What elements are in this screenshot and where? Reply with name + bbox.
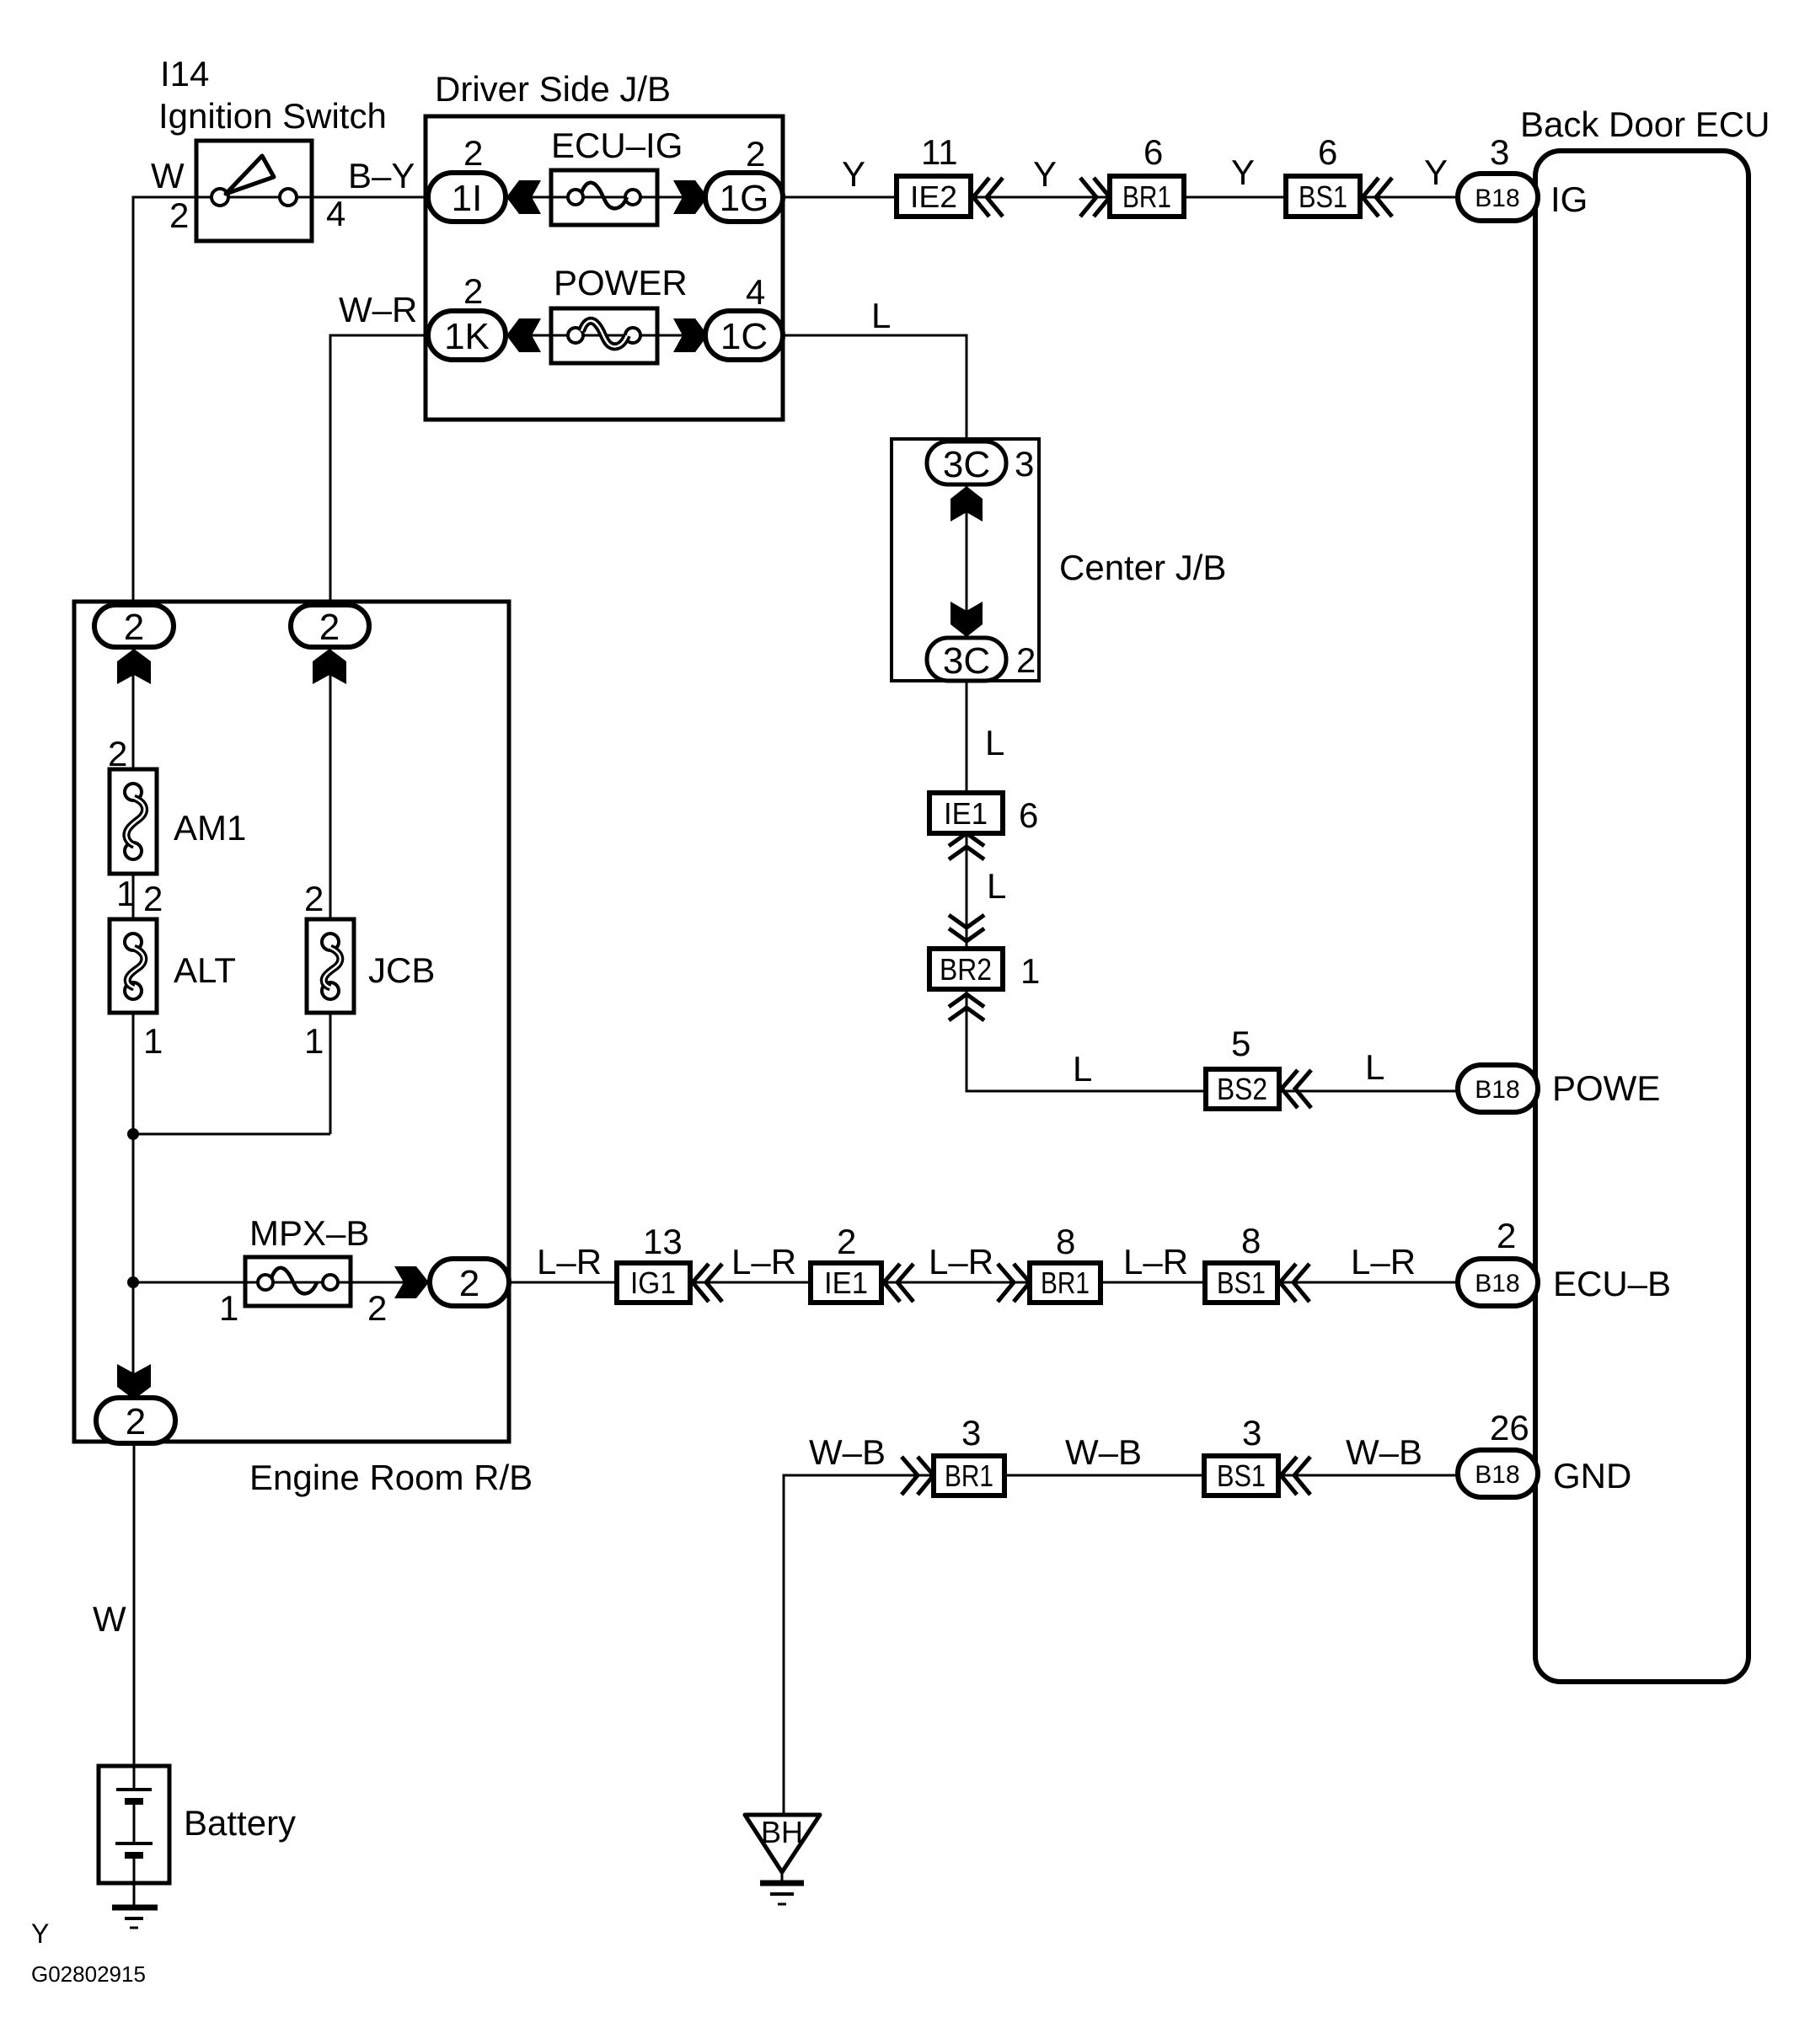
wire L-R: MPX-B junction to fuse to connector 2 — [133, 1282, 431, 1284]
pin name IG — [1550, 179, 1588, 219]
connector BR1 pin 6 (IG row) — [1110, 176, 1184, 217]
Driver Side J/B box — [426, 116, 783, 420]
wire W-R: from Engine Room R/B JCB branch up to 1K — [330, 335, 472, 607]
svg-text:L: L — [871, 296, 891, 335]
label L wire color (3C to IE1) — [985, 723, 1004, 762]
arrow up into oval 2 top-left — [117, 649, 151, 684]
svg-text:Ignition Switch: Ignition Switch — [158, 96, 387, 136]
connector BR1 pin 3 (GND row) — [934, 1456, 1004, 1496]
svg-text:1G: 1G — [720, 178, 769, 219]
svg-text:26: 26 — [1490, 1408, 1529, 1447]
svg-text:IE2: IE2 — [910, 179, 957, 214]
label fuse ALT — [174, 950, 236, 990]
svg-text:W–B: W–B — [1065, 1432, 1142, 1472]
pin 3 above BR1 GND — [961, 1413, 981, 1453]
pin 3 above BS1 GND — [1242, 1413, 1261, 1453]
svg-text:BR1: BR1 — [1122, 179, 1171, 214]
chevrons after BS2 (POWE row) — [1282, 1070, 1311, 1108]
svg-text:2: 2 — [463, 271, 483, 311]
connector oval 2 bottom of Engine Room R/B — [96, 1398, 175, 1443]
svg-text:2: 2 — [459, 1263, 479, 1304]
svg-text:1K: 1K — [444, 316, 490, 357]
svg-text:B18: B18 — [1475, 1076, 1519, 1104]
connector BS1 pin 3 (GND row) — [1204, 1456, 1278, 1496]
battery — [99, 1766, 169, 1883]
svg-text:Y: Y — [1231, 152, 1255, 192]
svg-text:BS1: BS1 — [1217, 1458, 1266, 1493]
svg-text:2: 2 — [169, 195, 189, 235]
chevrons after BS1 (IG row) — [1363, 178, 1392, 217]
svg-text:Y: Y — [1033, 154, 1057, 194]
svg-text:2: 2 — [746, 134, 765, 174]
arrow into 1I from fuse ECU-IG — [506, 180, 541, 214]
svg-text:2: 2 — [463, 133, 483, 173]
pin name ECU-B — [1553, 1264, 1671, 1303]
connector oval 1I pin 2 — [428, 173, 506, 222]
svg-text:6: 6 — [1318, 132, 1337, 172]
svg-text:ECU–B: ECU–B — [1553, 1264, 1671, 1303]
arrow up into 3C pin 3 — [951, 486, 983, 522]
svg-text:BR2: BR2 — [940, 952, 992, 987]
chevrons after IE1 (ECU-B row) — [884, 1264, 913, 1302]
svg-text:BR1: BR1 — [1041, 1265, 1090, 1300]
connector oval 2 MPX-B output — [430, 1259, 509, 1306]
svg-text:6: 6 — [1019, 795, 1038, 835]
wire: battery positive branch down left column of Engine Room R/B — [132, 623, 135, 771]
arrow right into MPX-B output oval 2 — [394, 1266, 429, 1298]
connector oval B18 pin 26 GND — [1458, 1450, 1538, 1497]
pin 2 of MPX-B — [367, 1288, 387, 1328]
svg-text:Y: Y — [1424, 152, 1448, 192]
fuse MPX-B — [245, 1257, 351, 1306]
wire IG row: 1I through ECU-IG fuse to 1G — [472, 196, 742, 199]
label L wire color (BS2 to B18) — [1365, 1047, 1384, 1087]
pin 2 above 1K — [463, 271, 483, 311]
svg-text:3C: 3C — [943, 444, 990, 485]
pin 11 above IE2 — [921, 132, 958, 172]
label Center J/B — [1059, 548, 1226, 587]
svg-text:JCB: JCB — [368, 950, 435, 990]
arrow down into 3C pin 2 — [951, 602, 983, 637]
wire W-B: BH ground up and right to BR1 BS1 to B18 GND — [784, 1475, 1483, 1815]
pin 6 above BS1 — [1318, 132, 1337, 172]
svg-text:8: 8 — [1241, 1221, 1261, 1260]
label W-R wire color — [339, 290, 417, 329]
svg-text:L: L — [987, 866, 1006, 906]
svg-text:BS1: BS1 — [1299, 179, 1347, 214]
svg-text:IE1: IE1 — [824, 1265, 868, 1300]
svg-text:L–R: L–R — [1123, 1242, 1188, 1282]
pin 2 above AM1 — [108, 734, 127, 773]
connector oval 1C pin 4 — [705, 311, 783, 360]
label L-R wire color (BS1 to B18) — [1351, 1242, 1416, 1282]
chevrons below BR2 — [949, 994, 984, 1020]
label L wire color (BR2 to BS2) — [1073, 1049, 1092, 1089]
chevrons after IG1 (ECU-B row) — [693, 1264, 722, 1302]
svg-text:2: 2 — [1016, 640, 1036, 680]
svg-text:Driver Side J/B: Driver Side J/B — [435, 69, 671, 109]
label Y wire color (1G to IE2) — [842, 154, 865, 194]
label Y wire color (BR1 to BS1) — [1231, 152, 1255, 192]
wire: JCB pin 1 down to junction row — [329, 1011, 332, 1134]
label Driver Side J/B — [435, 69, 671, 109]
wire L: Center J/B 3C pin 2 down to IE1 — [966, 679, 968, 795]
pin name POWE — [1552, 1068, 1660, 1108]
label Battery — [184, 1803, 296, 1843]
ground below battery — [112, 1883, 158, 1928]
ground BH triangle — [745, 1815, 820, 1904]
svg-text:5: 5 — [1231, 1024, 1250, 1063]
chevrons after IE2 (IG row) — [973, 178, 1003, 217]
svg-text:13: 13 — [643, 1222, 683, 1261]
ignition switch I14 box — [196, 141, 312, 241]
fuse ALT — [110, 919, 157, 1013]
connector oval 2 top-left of Engine Room R/B — [94, 605, 174, 648]
label L-R wire color (IG1 to IE1) — [731, 1242, 796, 1282]
pin 8 above BR1 — [1056, 1222, 1075, 1261]
label fuse JCB — [368, 950, 435, 990]
svg-text:ALT: ALT — [174, 950, 236, 990]
label fuse ECU-IG — [551, 126, 683, 165]
svg-text:3: 3 — [1242, 1413, 1261, 1453]
svg-text:Battery: Battery — [184, 1803, 296, 1843]
svg-text:Engine Room R/B: Engine Room R/B — [249, 1458, 533, 1497]
label W-B wire color (BR1 to BS1) — [1065, 1432, 1142, 1472]
svg-text:B18: B18 — [1475, 1461, 1519, 1489]
svg-text:BR1: BR1 — [945, 1458, 993, 1493]
pin 4 of ignition switch — [326, 194, 345, 233]
pin 1 below JCB — [304, 1021, 324, 1061]
chevrons after BS1 (ECU-B row) — [1280, 1264, 1309, 1302]
arrow up into oval 2 top-right — [313, 649, 346, 684]
svg-text:W–B: W–B — [809, 1432, 886, 1472]
pin 3 above B18 IG — [1490, 132, 1509, 172]
wire POWER row: 1K through POWER fuse to 1C — [472, 334, 742, 337]
svg-text:BS1: BS1 — [1217, 1265, 1266, 1300]
junction node: ALT-JCB tie point — [127, 1128, 139, 1140]
pin 8 above BS1 — [1241, 1221, 1261, 1260]
wire L: BR2 down then right to BS2 and B18 POWE — [967, 988, 1483, 1091]
svg-text:Back Door ECU: Back Door ECU — [1520, 104, 1770, 144]
pin 2 above ALT — [143, 879, 163, 918]
wire: ALT pin 1 down to junction and MPX-B junction and bottom connector — [132, 1011, 135, 1401]
pin 2 above JCB — [304, 879, 324, 918]
chevrons before BR1 (GND row) — [902, 1457, 934, 1495]
svg-text:3: 3 — [961, 1413, 981, 1453]
Back Door ECU box — [1535, 151, 1748, 1682]
label fuse AM1 — [174, 808, 246, 848]
svg-text:4: 4 — [326, 194, 345, 233]
svg-text:2: 2 — [126, 1401, 146, 1442]
svg-text:IE1: IE1 — [944, 796, 988, 831]
pin 3 of 3C — [1015, 444, 1034, 484]
wire W: ignition switch pin 2 to Engine Room R/B connector — [133, 197, 312, 607]
wire L: 1C to Center J/B 3C pin 3 — [742, 335, 967, 443]
svg-text:1: 1 — [304, 1021, 324, 1061]
svg-text:W–R: W–R — [339, 290, 417, 329]
svg-text:L–R: L–R — [731, 1242, 796, 1282]
label Y wire color (IE2 to BR1) — [1033, 154, 1057, 194]
svg-text:W: W — [93, 1599, 126, 1639]
svg-text:B18: B18 — [1475, 1270, 1519, 1298]
label L wire color (1C to Center J/B) — [871, 296, 891, 335]
svg-text:2: 2 — [108, 734, 127, 773]
svg-text:1C: 1C — [720, 316, 768, 357]
connector BS2 pin 5 — [1206, 1069, 1279, 1109]
connector IG1 pin 13 — [617, 1263, 690, 1303]
svg-text:2: 2 — [1497, 1216, 1516, 1255]
wire: JCB branch vertical — [329, 623, 332, 921]
ignition switch pin contact circles — [212, 189, 297, 206]
wire: junction row connecting ALT branch to JCB branch — [133, 1133, 330, 1136]
label L-R wire color (BR1 to BS1) — [1123, 1242, 1188, 1282]
pin 2 of 3C — [1016, 640, 1036, 680]
connector oval 2 top-right of Engine Room R/B — [291, 605, 369, 648]
connector IE1 pin 2 (ECU-B row) — [811, 1263, 881, 1303]
svg-text:8: 8 — [1056, 1222, 1075, 1261]
label Y wire color (BS1 to B18) — [1424, 152, 1448, 192]
svg-text:1: 1 — [143, 1021, 163, 1061]
connector oval B18 POWE — [1458, 1065, 1538, 1112]
chevrons before BR1 (ECU-B row) — [998, 1264, 1030, 1302]
svg-text:B–Y: B–Y — [348, 156, 415, 195]
Center J/B box — [892, 439, 1039, 681]
label I14 — [160, 54, 209, 94]
pin 1 of BR2 — [1020, 951, 1040, 991]
svg-text:W–B: W–B — [1346, 1432, 1422, 1472]
pin 1 below AM1 — [116, 874, 136, 913]
pin 2 of ignition switch — [169, 195, 189, 235]
connector oval 3C pin 2 — [927, 638, 1006, 682]
connector oval 1K pin 2 — [428, 311, 506, 360]
svg-text:11: 11 — [921, 132, 958, 172]
Engine Room R/B box — [74, 602, 509, 1442]
svg-text:2: 2 — [367, 1288, 387, 1328]
ignition switch lever — [226, 156, 274, 194]
connector oval B18 pin 3 IG — [1458, 174, 1538, 221]
chevrons below IE1 (vertical run) — [949, 833, 984, 859]
fuse AM1 — [110, 769, 157, 874]
connector oval 1G pin 2 — [705, 173, 783, 222]
wire L-R: Engine Room R/B to IG1 IE1 BR1 BS1 to B18 ECU-B — [509, 1282, 1483, 1284]
fuse POWER — [551, 308, 657, 363]
svg-text:L: L — [1073, 1049, 1092, 1089]
arrow from fuse POWER into 1C — [673, 318, 708, 352]
svg-text:1: 1 — [1020, 951, 1040, 991]
svg-text:IG1: IG1 — [630, 1265, 676, 1300]
svg-text:BH: BH — [761, 1815, 803, 1849]
connector BS1 pin 8 (ECU-B row) — [1205, 1263, 1277, 1303]
svg-text:ECU–IG: ECU–IG — [551, 126, 683, 165]
svg-text:POWE: POWE — [1552, 1068, 1660, 1108]
pin 5 of BS2 — [1231, 1024, 1250, 1063]
svg-text:2: 2 — [143, 879, 163, 918]
label B-Y wire color — [348, 156, 415, 195]
pin 13 above IG1 — [643, 1222, 683, 1261]
wire: AM1 pin 1 to ALT pin 2 — [132, 872, 135, 921]
svg-text:L–R: L–R — [1351, 1242, 1416, 1282]
label W wire color — [151, 156, 185, 195]
svg-text:Y: Y — [31, 1918, 49, 1949]
svg-text:GND: GND — [1553, 1456, 1631, 1496]
chevrons before BR1 (IG row) — [1080, 178, 1110, 217]
label Back Door ECU — [1520, 104, 1770, 144]
arrow into 1K from fuse POWER — [506, 318, 541, 352]
connector BS1 pin 6 (IG row) — [1286, 176, 1360, 217]
svg-text:3: 3 — [1015, 444, 1034, 484]
wire: Center J/B internal 3C to 3C — [966, 480, 968, 642]
connector oval 3C pin 3 — [927, 441, 1006, 485]
fuse JCB — [307, 919, 354, 1013]
junction node: MPX-B tap — [127, 1276, 139, 1288]
svg-text:G02802915: G02802915 — [31, 1961, 146, 1987]
pin 2 above 1I — [463, 133, 483, 173]
pin 1 below ALT — [143, 1021, 163, 1061]
svg-text:6: 6 — [1143, 132, 1163, 172]
svg-text:MPX–B: MPX–B — [249, 1213, 369, 1253]
label Y page code — [31, 1918, 49, 1949]
svg-text:Y: Y — [842, 154, 865, 194]
pin 2 above B18 ECU-B — [1497, 1216, 1516, 1255]
svg-text:W: W — [151, 156, 185, 195]
arrow from fuse ECU-IG into 1G — [673, 180, 708, 214]
label L-R wire color (IE1 to BR1) — [929, 1242, 993, 1282]
wire L: IE1 to BR2 — [966, 832, 968, 950]
svg-text:B18: B18 — [1475, 185, 1519, 212]
label Engine Room R/B — [249, 1458, 533, 1497]
svg-text:BS2: BS2 — [1217, 1072, 1267, 1106]
svg-text:2: 2 — [319, 607, 340, 648]
pin 4 above 1C — [746, 272, 765, 312]
pin 1 of MPX-B — [219, 1288, 238, 1328]
arrow down into bottom oval 2 — [117, 1364, 151, 1399]
svg-text:1: 1 — [116, 874, 136, 913]
label fuse POWER — [554, 263, 688, 302]
svg-text:L–R: L–R — [929, 1242, 993, 1282]
label L wire color (IE1 to BR2) — [987, 866, 1006, 906]
pin 2 above IE1 — [837, 1222, 856, 1261]
svg-text:AM1: AM1 — [174, 808, 246, 848]
svg-text:POWER: POWER — [554, 263, 688, 302]
svg-text:2: 2 — [124, 607, 144, 648]
label W wire color (to battery) — [93, 1599, 126, 1639]
svg-text:L–R: L–R — [537, 1242, 602, 1282]
label L-R wire color (R/B to IG1) — [537, 1242, 602, 1282]
svg-text:L: L — [1365, 1047, 1384, 1087]
wire B-Y: ignition switch pin 4 to 1I — [196, 196, 472, 199]
svg-text:2: 2 — [304, 879, 324, 918]
pin 2 above 1G — [746, 134, 765, 174]
label W-B wire color (BH to BR1) — [809, 1432, 886, 1472]
connector BR2 pin 1 — [929, 949, 1003, 989]
label W-B wire color (BS1 to B18) — [1346, 1432, 1422, 1472]
label figure number G02802915 — [31, 1961, 146, 1987]
svg-text:3C: 3C — [943, 640, 990, 682]
fuse ECU-IG — [551, 170, 657, 225]
chevrons after BS1 (GND row) — [1281, 1457, 1310, 1495]
connector IE2 pin 11 — [897, 176, 971, 217]
svg-text:3: 3 — [1490, 132, 1509, 172]
chevrons above BR2 — [949, 915, 984, 941]
connector BR1 pin 8 (ECU-B row) — [1030, 1263, 1100, 1303]
wire W: Engine Room R/B bottom connector down to battery — [133, 1442, 136, 1768]
label fuse MPX-B — [249, 1213, 369, 1253]
pin 6 of IE1 — [1019, 795, 1038, 835]
svg-text:1: 1 — [219, 1288, 238, 1328]
pin name GND — [1553, 1456, 1631, 1496]
svg-text:4: 4 — [746, 272, 765, 312]
label Ignition Switch — [158, 96, 387, 136]
pin 26 above B18 GND — [1490, 1408, 1529, 1447]
svg-text:Center J/B: Center J/B — [1059, 548, 1226, 587]
svg-text:2: 2 — [837, 1222, 856, 1261]
pin 6 above BR1 — [1143, 132, 1163, 172]
svg-text:I14: I14 — [160, 54, 209, 94]
connector oval B18 pin 2 ECU-B — [1458, 1259, 1538, 1306]
wire Y: 1G to IE2 to BR1 to BS1 to B18 IG — [742, 196, 1483, 199]
svg-text:IG: IG — [1550, 179, 1588, 219]
svg-text:L: L — [985, 723, 1004, 762]
svg-text:1I: 1I — [452, 178, 483, 219]
connector IE1 pin 6 (vertical L run) — [929, 793, 1003, 833]
